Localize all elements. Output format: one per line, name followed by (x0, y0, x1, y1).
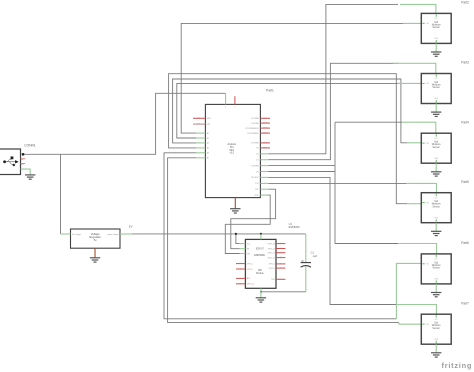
pin GND leg of Part4 (435, 163, 437, 172)
svg-text:Sensor: Sensor (433, 267, 441, 270)
svg-text:ESP8266: ESP8266 (289, 225, 301, 229)
ground GND-Part2 (431, 52, 441, 56)
wire A-left-P2left (181, 23, 403, 133)
svg-text:GPIO-12: GPIO-12 (268, 248, 275, 250)
svg-text:A0: A0 (207, 132, 209, 135)
svg-text:Moisture: Moisture (432, 203, 442, 206)
svg-text:Sensor: Sensor (433, 86, 441, 89)
svg-text:Sensor: Sensor (433, 205, 441, 208)
sensor Part4 Soil Moisture Sensor (421, 133, 451, 163)
wire A-left-P3left (177, 83, 398, 138)
junction 5V rail / ESP top pin (260, 233, 262, 235)
junction 5V rail / ESP VCC branch (235, 233, 237, 235)
svg-text:A5: A5 (207, 157, 209, 160)
svg-text:GPIO-0: GPIO-0 (269, 268, 275, 270)
pin GND leg of Part3 (435, 104, 437, 113)
svg-text:GPIO-4: GPIO-4 (247, 263, 253, 265)
wire P5top-leg (406, 183, 437, 192)
ground GND-Part3 (431, 112, 441, 116)
svg-text:Moisture: Moisture (432, 23, 442, 26)
svg-text:D5: D5 (256, 154, 258, 156)
wire chain-vertical (334, 122, 336, 243)
pin GND bottom leg of Part1 (234, 198, 236, 209)
IC U1 ESP8266 module (245, 239, 276, 288)
svg-text:A2: A2 (207, 142, 209, 145)
capacitor C1 .1uF (301, 234, 311, 292)
svg-text:Part1: Part1 (266, 89, 274, 93)
svg-text:GPIO-14: GPIO-14 (268, 243, 275, 245)
wire P6top-leg (398, 244, 437, 254)
wire chain-T2 (269, 171, 336, 173)
unconnected left pins of Part1 (193, 117, 205, 119)
ground GND-Part5 (431, 231, 441, 235)
wire P7top-leg (397, 305, 436, 315)
svg-text:PWM: PWM (263, 123, 268, 125)
sensor Part5 Soil Moisture Sensor (421, 193, 451, 223)
svg-text:GPIO-2: GPIO-2 (269, 264, 275, 266)
svg-text:PWM: PWM (263, 143, 268, 145)
wire P2top-feed (269, 4, 399, 153)
svg-text:Part7: Part7 (461, 301, 469, 305)
ground GND-USB (25, 175, 35, 179)
wire P3left-leg (398, 82, 422, 84)
wire P5top-feed (269, 182, 407, 184)
svg-text:Module: Module (256, 273, 264, 275)
connected left pins of U1 (240, 243, 246, 245)
svg-text:PWM: PWM (263, 128, 268, 130)
svg-text:D9 PWM: D9 PWM (251, 143, 259, 145)
svg-text:CONN1: CONN1 (24, 144, 36, 148)
sensor Part6 Soil Moisture Sensor (421, 254, 451, 284)
wire ESP-RX-feed (231, 189, 276, 249)
wire trunk-P6left (164, 153, 396, 319)
ground GND-arduino (230, 209, 240, 213)
svg-text:Moisture: Moisture (432, 84, 442, 87)
ground GND-Part7 (431, 353, 441, 357)
svg-text:RST: RST (197, 124, 200, 126)
svg-text:D11 PWM/MOSI: D11 PWM/MOSI (245, 128, 259, 130)
svg-text:Wifi: Wifi (258, 270, 262, 272)
pin 1 VCC of CONN1 (22, 153, 24, 155)
wire chain-T1 (269, 165, 336, 167)
junction ESP ground leg / capacitor ground wire (260, 291, 262, 293)
pin GND leg of Part2 (435, 43, 437, 52)
svg-text:GPIO-16: GPIO-16 (247, 284, 254, 286)
svg-text:D13 SCK: D13 SCK (251, 177, 259, 179)
svg-text:ESP8266: ESP8266 (254, 254, 265, 257)
svg-text:D-: D- (21, 159, 23, 161)
wire P5left-leg (407, 203, 422, 205)
sensor Part2 Soil Moisture Sensor (421, 13, 451, 43)
pin Vin leg of regulator (61, 233, 71, 235)
pin GND bottom leg of U1 (260, 288, 262, 298)
svg-text:Part2: Part2 (461, 1, 469, 5)
pin GND leg of regulator (94, 248, 96, 258)
wire P6top-branch (335, 243, 398, 245)
wire P4top-branch (335, 121, 402, 123)
svg-text:Part3: Part3 (461, 61, 469, 65)
svg-text:Sensor: Sensor (433, 26, 441, 29)
pin RAW top of Part1 (unconnected) (234, 96, 236, 104)
wire USB-gnd-leg (21, 169, 31, 175)
svg-text:Moisture: Moisture (432, 264, 442, 267)
svg-text:fritzing: fritzing (442, 361, 473, 370)
wire USB-VCC-to-Arduino (24, 93, 226, 154)
svg-text:PWM: PWM (263, 133, 268, 135)
unconnected left pins of U1 (236, 263, 245, 265)
wire A-left-P4left (173, 79, 407, 143)
wire P2left-leg (403, 22, 421, 24)
svg-text:GPIO-5: GPIO-5 (247, 269, 253, 271)
ground GND-Part6 (431, 293, 441, 297)
svg-text:A3: A3 (207, 147, 209, 150)
svg-text:D2 PWM: D2 PWM (251, 118, 259, 120)
connected left pins of Part1 (196, 132, 205, 134)
svg-text:Part4: Part4 (461, 120, 469, 124)
wire 5V-rail (132, 233, 306, 235)
pin GND leg of Part5 (435, 223, 437, 232)
wire P3top-feed (269, 63, 399, 159)
wire P3top-leg (393, 63, 436, 73)
wire cap-gnd-to-ESP-gnd (261, 291, 306, 293)
wire P7left-leg (399, 323, 421, 325)
svg-text:A1: A1 (207, 137, 209, 140)
svg-text:output voltage: output voltage (107, 233, 118, 236)
wire A-left-P5left (169, 74, 407, 204)
unconnected right pins of Part1 (260, 117, 270, 119)
wire ESP-TX-feed (225, 195, 270, 253)
svg-text:GPIO-15: GPIO-15 (268, 257, 275, 259)
IC Part1 Arduino Pro Mini (205, 104, 260, 197)
svg-text:ESP-07: ESP-07 (256, 248, 265, 250)
svg-text:Sensor: Sensor (433, 327, 441, 330)
svg-text:Sensor: Sensor (433, 146, 441, 149)
sensor Part7 Soil Moisture Sensor (421, 314, 451, 344)
svg-text:GPIO-13: GPIO-13 (268, 253, 275, 255)
svg-text:GND: GND (207, 118, 212, 120)
pin GND leg of Part7 (435, 344, 437, 353)
pin 3 D+ of CONN1 (unconnected) (21, 163, 26, 165)
connected right pins of Part1 (260, 153, 268, 155)
svg-text:D12: D12 (255, 183, 258, 185)
wire P2top-leg (400, 4, 436, 13)
wire USB-to-regulator-Vin (60, 154, 62, 234)
svg-text:.1μF: .1μF (312, 254, 318, 258)
ground GND-Part4 (431, 172, 441, 176)
pin GND leg of Part6 (435, 284, 437, 293)
wire ESP-VCC-branch (236, 234, 240, 244)
svg-text:PWM: PWM (263, 118, 268, 120)
pin top of U1 joining 5V rail (260, 234, 262, 240)
svg-text:Vin voltage: Vin voltage (72, 233, 81, 236)
wire P6left-leg (396, 263, 421, 318)
pin Vout leg of regulator (120, 233, 132, 235)
svg-text:Moisture: Moisture (432, 143, 442, 146)
svg-text:D8: D8 (256, 171, 258, 173)
unconnected right pins of U1 (276, 243, 285, 245)
svg-text:v: v (225, 107, 226, 109)
sensor Part3 Soil Moisture Sensor (421, 74, 451, 104)
svg-text:Part5: Part5 (461, 180, 469, 184)
svg-text:Part6: Part6 (461, 241, 469, 245)
svg-text:Moisture: Moisture (432, 324, 442, 327)
svg-text:v13: v13 (230, 152, 235, 155)
svg-text:PWM: PWM (263, 148, 268, 150)
connector CONN1 USB (0, 149, 21, 175)
wire P4left-leg (407, 142, 421, 144)
svg-text:D3 PWM: D3 PWM (251, 123, 259, 125)
svg-text:D6: D6 (256, 148, 258, 150)
svg-text:5V: 5V (129, 225, 133, 229)
voltage regulator U2 (71, 229, 121, 248)
ground GND-esp (256, 298, 266, 302)
wire trunk-P7left (168, 158, 399, 323)
svg-text:A4: A4 (207, 152, 209, 155)
svg-text:D10 PWM/SS: D10 PWM/SS (248, 133, 260, 135)
pin VCC top leg of Part1 (225, 93, 227, 104)
wire P7top-feed (269, 177, 398, 304)
svg-text:D4: D4 (256, 160, 258, 162)
wire P4top-leg (402, 122, 436, 133)
ground GND-regulator (90, 258, 100, 262)
pin 2 D- of CONN1 (unconnected) (21, 158, 26, 160)
svg-text:D3 PWM: D3 PWM (251, 165, 259, 167)
svg-text:C1: C1 (311, 250, 315, 254)
